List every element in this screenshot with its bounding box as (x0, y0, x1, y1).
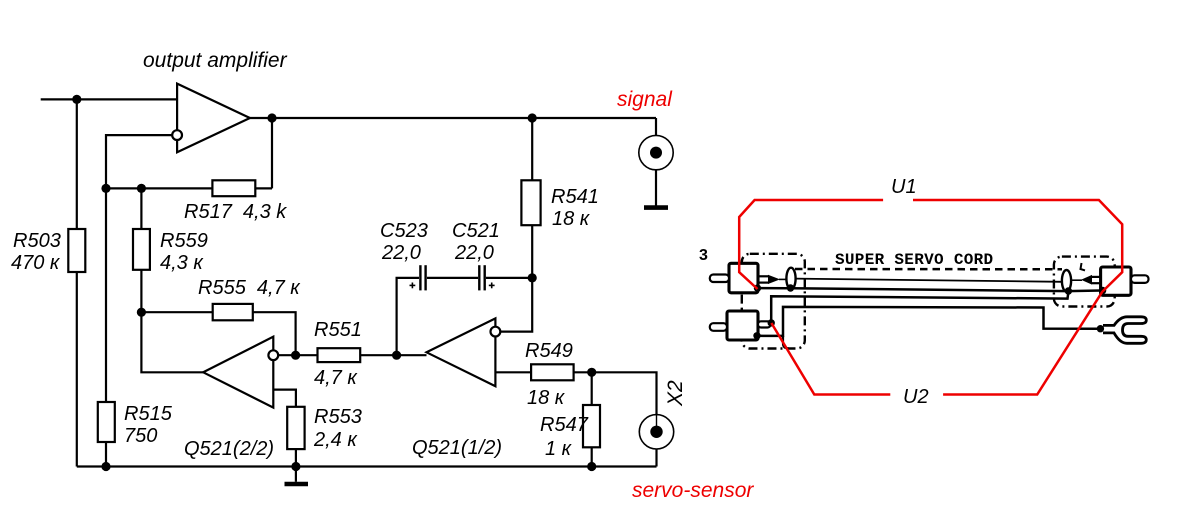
node dot signal/R541 (528, 113, 537, 122)
op-amp Q521(2/2) (203, 337, 273, 408)
wire op3 lower input to R549 (495, 371, 532, 373)
cable dashed top edge (795, 268, 1062, 271)
svg-text:2,4 к: 2,4 к (313, 429, 358, 451)
junction dot top-left plug bottom (754, 284, 761, 291)
wire R559 branch vertical (140, 188, 142, 312)
resistor R541 (521, 180, 540, 225)
wire junction down to op3 bubble (500, 278, 532, 332)
svg-text:R503: R503 (13, 230, 61, 252)
wire op2 output node to R551 (296, 354, 318, 356)
wire node A to op2 output apex (141, 312, 203, 372)
pin right of bottom-left plug (758, 321, 771, 327)
wire signal drop (655, 118, 657, 136)
capacitor C521 plates (478, 265, 480, 290)
junction dot left ellipse bottom (787, 284, 794, 291)
resistor R559 (133, 229, 150, 270)
svg-text:U2: U2 (903, 386, 929, 408)
dash-dot box left connectors (742, 254, 805, 349)
node dot input (72, 95, 81, 104)
svg-text:R555 4,7 к: R555 4,7 к (198, 277, 301, 299)
op-amp bubble U1 (172, 130, 182, 140)
connector plug right (1101, 267, 1131, 295)
wire C521 to junction (486, 277, 532, 279)
node dot R549/R547 (587, 368, 596, 377)
svg-text:3: 3 (699, 247, 708, 264)
wire cable bottom to right plug (1068, 289, 1101, 292)
svg-text:X2: X2 (664, 380, 687, 407)
svg-text:4,3 к: 4,3 к (160, 252, 204, 274)
wire R551 right to op3 apex (360, 354, 426, 356)
svg-text:SUPER SERVO CORD: SUPER SERVO CORD (835, 251, 993, 269)
wire into servo connector (656, 415, 658, 432)
svg-text:Q521(1/2): Q521(1/2) (412, 437, 502, 459)
node dot R517/R559 (137, 184, 146, 193)
wire op2 bubble stub (278, 354, 295, 356)
wire R549 right to X2 (574, 372, 657, 414)
resistor R555 (213, 304, 253, 320)
ground at bottom (285, 482, 309, 487)
fork terminal (1103, 317, 1146, 344)
svg-text:R551: R551 (314, 319, 362, 341)
wire op1 output to signal (249, 117, 656, 119)
op-amp U1 output amplifier (177, 84, 250, 153)
wire shield lower-left pin (771, 292, 1068, 323)
svg-text:U1: U1 (891, 176, 917, 198)
wire bottom rail (77, 465, 657, 467)
wire node A to R555 (141, 311, 214, 313)
svg-text:output amplifier: output amplifier (143, 49, 288, 72)
svg-text:C521: C521 (452, 220, 500, 242)
svg-text:R541: R541 (551, 186, 599, 208)
resistor R547 (583, 405, 600, 447)
resistor R517 (212, 180, 255, 196)
node dot op1 output (267, 113, 276, 122)
resistor R553 (287, 407, 304, 449)
op-amp bubble Q521(1/2) (491, 327, 501, 337)
op-amp bubble Q521(2/2) (268, 350, 278, 360)
wire R517 row (106, 187, 272, 189)
wire between capacitors (427, 277, 478, 279)
svg-text:22,0: 22,0 (454, 242, 494, 264)
node dot rail R515 (101, 462, 110, 471)
wire signal ground stub (655, 170, 657, 206)
op-amp Q521(1/2) (427, 318, 496, 386)
node dot A R559/R555 (137, 308, 146, 317)
svg-text:R553: R553 (314, 406, 362, 428)
svg-text:C523: C523 (380, 220, 428, 242)
junction dot lower-left tab (753, 332, 760, 339)
plus mark C521 (489, 284, 495, 286)
pin arrow tip left (768, 275, 780, 284)
svg-text:1 к: 1 к (545, 438, 573, 460)
wire servo connector bottom stub (655, 449, 657, 467)
connector servo-sensor (639, 415, 673, 449)
junction dot right plug bottom (1099, 287, 1106, 294)
red callout U2 (771, 323, 890, 395)
center pin right plug (1092, 276, 1101, 278)
junction dot right ellipse bottom (1065, 287, 1072, 294)
wire ground stub bottom (295, 467, 297, 482)
pin right of right plug (1131, 275, 1149, 283)
svg-text:4,7 к: 4,7 к (314, 367, 358, 389)
svg-text:18 к: 18 к (552, 208, 591, 230)
wire R555 right to op2 bubble node (253, 312, 296, 355)
wire feedback down from output (271, 118, 273, 188)
ground at signal connector (644, 205, 668, 210)
dash-dot box right connector (1054, 257, 1115, 307)
pin left of bottom-left plug (710, 323, 727, 331)
red callout U1 (739, 200, 883, 289)
wire op2 noninverting input to R553 (273, 390, 296, 408)
wire to op1 inverting bubble (106, 135, 172, 188)
svg-text:R517 4,3 k: R517 4,3 k (184, 201, 287, 223)
connector plug top-left (729, 263, 758, 293)
wire R503 branch vertical (76, 99, 78, 466)
svg-text:Q521(2/2): Q521(2/2) (184, 438, 274, 460)
cable end ellipse left (786, 268, 795, 290)
label L mark (1081, 263, 1086, 270)
svg-text:servo-sensor: servo-sensor (632, 479, 754, 502)
node dot op2 output (291, 351, 300, 360)
capacitor C523 plates (419, 265, 421, 290)
connector signal (639, 135, 673, 169)
node dot rail R553 (291, 462, 300, 471)
wire ground tab to fork (757, 307, 1100, 336)
svg-text:signal: signal (617, 88, 673, 111)
resistor R551 (318, 348, 361, 362)
svg-text:18 к: 18 к (527, 387, 566, 409)
wire cap branch up (397, 278, 419, 355)
wire R553 bottom to rail (295, 449, 297, 467)
cable end ellipse right (1062, 270, 1071, 292)
wire plug to cable bottom (758, 287, 788, 290)
cable center conductor (796, 279, 1063, 282)
resistor R549 (531, 364, 574, 380)
svg-text:R547: R547 (540, 414, 589, 436)
pin arrow tip right (1081, 275, 1092, 285)
connector plug bottom-left (727, 311, 758, 340)
svg-text:470 к: 470 к (11, 252, 61, 274)
svg-text:22,0: 22,0 (381, 242, 421, 264)
wire R547 branch (591, 372, 593, 466)
cable bottom edge (791, 288, 1068, 291)
node dot caps/R541 (528, 273, 537, 282)
plus mark C523 (410, 284, 416, 286)
junction dot lower-left pin (768, 319, 775, 326)
wire input top (41, 98, 178, 100)
wire R541 branch (531, 118, 533, 278)
center pin top-left plug (758, 275, 769, 277)
svg-text:R515: R515 (124, 403, 173, 425)
wire curl below tab (783, 336, 789, 349)
svg-text:R559: R559 (160, 230, 208, 252)
svg-text:R549: R549 (525, 340, 573, 362)
resistor R503 (68, 229, 85, 272)
resistor R515 (98, 402, 115, 442)
node dot rail R547 (587, 462, 596, 471)
pin left of top-left plug (710, 275, 729, 283)
svg-text:750: 750 (124, 425, 157, 447)
node dot R517/R515 (101, 184, 110, 193)
wire R515 branch vertical (105, 188, 107, 466)
junction dot fork (1097, 325, 1104, 332)
node dot R551/caps (392, 351, 401, 360)
